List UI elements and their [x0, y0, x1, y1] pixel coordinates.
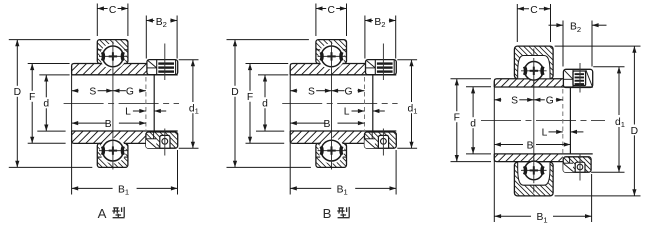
- diagram C dimension B1: [495, 174, 592, 224]
- diagram C inner ring bottom band: [491, 154, 593, 162]
- A inner ring bottom band: [63, 131, 178, 143]
- B inner ring left face and B1 extension: [289, 66, 291, 195]
- svg-text:F: F: [29, 92, 35, 103]
- A inner ring top band: [60, 64, 177, 75]
- A dimension F: [28, 64, 70, 144]
- A collar bottom: [130, 132, 206, 148]
- diagram C set screw centerline top: [579, 63, 581, 93]
- diagram C dimension d: [466, 87, 491, 154]
- svg-text:A: A: [98, 206, 107, 221]
- diagram C dimension S: [494, 96, 534, 107]
- A ball vertical centerline: [112, 42, 114, 170]
- diagram C dimension L: [542, 127, 584, 138]
- A inner ring right face line: [153, 74, 155, 131]
- A dimension B: [72, 119, 146, 130]
- A set screw centerline bottom: [164, 129, 166, 156]
- svg-text:D: D: [14, 87, 21, 98]
- A dimension D: [9, 40, 93, 168]
- A dimension S: [72, 87, 113, 98]
- svg-text:F: F: [247, 92, 253, 103]
- type label A: [98, 206, 125, 221]
- type label B: [323, 206, 350, 221]
- diagram C ball vertical centerline: [533, 49, 535, 193]
- B set screw centerline top: [382, 44, 384, 81]
- A centerline axis: [64, 102, 179, 104]
- A dimension G: [113, 87, 146, 98]
- diagram C dimension B2: [549, 21, 607, 67]
- B collar bottom: [348, 132, 424, 148]
- B top ball: [318, 43, 346, 71]
- B dimension B1: [290, 150, 396, 197]
- diagram C dimension C: [517, 3, 550, 42]
- svg-text:S: S: [89, 87, 96, 98]
- B dimension d: [256, 75, 288, 131]
- diagram C collar top: [563, 69, 592, 87]
- A inner ring left face and B1 extension: [71, 66, 73, 195]
- svg-text:G: G: [344, 87, 352, 98]
- svg-text:B: B: [323, 119, 330, 130]
- A hidden collar face dashed line: [145, 77, 147, 131]
- B dimension B2: [365, 15, 396, 59]
- B dimension d1: [397, 60, 417, 149]
- svg-text:F: F: [454, 112, 460, 123]
- diagram C dimension B: [494, 140, 570, 151]
- diagram C set screw centerline bottom: [579, 154, 581, 181]
- svg-text:L: L: [542, 127, 548, 138]
- B hidden collar face dashed line: [364, 77, 366, 131]
- B dimension B: [290, 119, 364, 130]
- svg-text:S: S: [308, 87, 315, 98]
- B dimension F: [246, 64, 289, 144]
- B bottom ball: [318, 137, 346, 165]
- diagram C collar bottom: [548, 157, 618, 172]
- A dimension B1: [72, 150, 178, 197]
- diagram C outer ring bottom block spherical: [481, 162, 619, 196]
- A dimension B2: [146, 15, 177, 59]
- diagram C dimension D: [555, 46, 641, 196]
- B inner ring right face line: [372, 74, 374, 131]
- B outer ring top block: [292, 40, 394, 70]
- diagram C dimension d1: [591, 67, 625, 172]
- svg-text:D: D: [631, 126, 638, 137]
- svg-text:d: d: [470, 118, 476, 129]
- diagram C hidden collar face dashed line: [562, 89, 564, 154]
- A dimension d1: [179, 60, 199, 149]
- svg-text:L: L: [125, 106, 131, 117]
- A top ball: [99, 43, 127, 71]
- A bottom ball: [99, 137, 127, 165]
- diagram C dimension G: [534, 96, 563, 107]
- diagram C bottom ball: [521, 158, 547, 184]
- B dimension S: [290, 87, 331, 98]
- B dimension C: [316, 3, 347, 36]
- A outer ring top block: [73, 40, 175, 70]
- A dimension d: [37, 75, 69, 131]
- diagram C inner ring top band: [486, 79, 593, 87]
- diagram C inner ring right face line: [569, 87, 571, 154]
- diagram C dimension F: [451, 79, 492, 162]
- svg-text:D: D: [231, 87, 238, 98]
- B inner ring bottom band: [282, 131, 397, 143]
- A dimension L: [125, 106, 166, 117]
- svg-text:G: G: [546, 96, 554, 107]
- diagram C top ball: [521, 58, 547, 84]
- diagram C centerline axis: [481, 119, 605, 121]
- svg-text:C: C: [109, 5, 117, 16]
- A outer ring bottom block: [73, 138, 175, 168]
- B ball vertical centerline: [331, 42, 333, 170]
- B collar top: [366, 60, 397, 75]
- svg-text:d: d: [43, 99, 49, 110]
- A set screw centerline top: [164, 44, 166, 81]
- A dimension C: [97, 3, 128, 36]
- svg-text:B: B: [527, 140, 534, 151]
- B outer ring bottom block: [292, 138, 394, 168]
- svg-text:B: B: [105, 119, 112, 130]
- A collar top: [147, 60, 178, 75]
- svg-text:L: L: [344, 106, 350, 117]
- diagram C outer ring top block spherical: [482, 46, 613, 79]
- B dimension D: [227, 40, 311, 168]
- B dimension L: [344, 106, 385, 117]
- B inner ring top band: [279, 64, 396, 75]
- svg-text:d: d: [262, 99, 268, 110]
- svg-text:C: C: [530, 5, 538, 16]
- svg-text:G: G: [126, 87, 134, 98]
- svg-text:B: B: [323, 206, 332, 221]
- svg-text:S: S: [511, 96, 518, 107]
- B centerline axis: [282, 102, 397, 104]
- B set screw centerline bottom: [382, 129, 384, 156]
- B dimension G: [332, 87, 365, 98]
- svg-text:C: C: [327, 5, 335, 16]
- diagram C inner ring left face and B1 extension: [493, 81, 495, 222]
